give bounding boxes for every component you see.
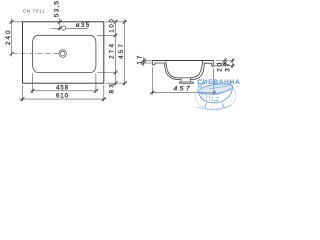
svg-text:20: 20 [217,61,224,71]
svg-text:37: 37 [225,61,232,71]
svg-text:53,5: 53,5 [53,0,60,17]
svg-text:610: 610 [56,93,69,100]
svg-text:240: 240 [5,28,12,45]
svg-text:CN 7011: CN 7011 [23,8,45,13]
svg-text:17: 17 [137,54,144,65]
svg-text:ø35: ø35 [76,22,91,29]
svg-text:83: 83 [109,82,116,93]
svg-text:274: 274 [109,42,116,59]
svg-text:457: 457 [118,42,125,59]
svg-text:457: 457 [174,85,193,92]
svg-text:458: 458 [56,85,69,92]
svg-text:100: 100 [109,17,116,32]
